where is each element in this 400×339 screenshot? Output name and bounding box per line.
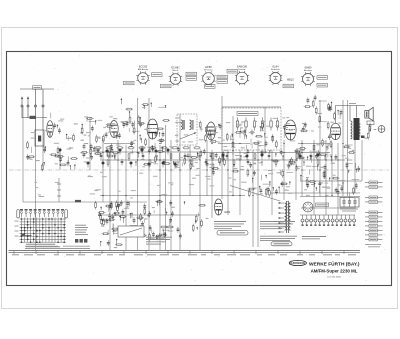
rectifier tube V8 [215,199,223,215]
svg-text:EL84: EL84 [272,64,279,68]
pilot lamp [378,126,385,133]
wire vertical 25 [264,107,266,150]
svg-text:Demod.: Demod. [238,69,246,71]
wire vertical 31 [319,100,321,196]
tube V4 pin label box upper-left [227,69,238,73]
wire vertical 10 [148,98,150,250]
wire vertical 38 [361,140,363,181]
tube V3 pin label box right upper [217,75,228,79]
rail caption left 3 [25,248,90,250]
wire vertical 33 [331,143,333,196]
wire AF coupling [298,143,330,145]
svg-text:EABC80: EABC80 [237,64,248,68]
voltage table text block [75,225,88,234]
wire vertical 16 [199,152,201,250]
transformer primary taps [278,202,284,204]
wire vertical 7 [117,140,119,202]
notes paragraph 1 [214,222,246,229]
wire vertical 35 [342,100,344,196]
heater voltage label [349,103,356,105]
svg-text:ECC85: ECC85 [139,64,148,68]
wire HT rail [270,192,360,194]
service note box 1 [217,231,248,235]
wire vertical 14 [179,114,181,250]
rail caption left 1 [25,245,58,247]
oscillator box top rail [222,106,281,108]
wire IF bus [95,151,200,153]
terminal label box right 1 [369,181,378,184]
output transformer T2 core [354,118,360,140]
wire vertical 24 [257,140,259,247]
wave symbol [21,234,32,236]
mixer tube V2a [110,121,118,138]
tube V6 pin label box right lower [317,83,328,87]
filter capacitor block C50 [340,198,359,208]
wire rectifier to transformer [230,186,280,202]
wire vertical 5 [102,138,104,202]
IF amp tube V4a [207,122,216,140]
contact row along band [100,153,326,167]
loudspeaker LS [365,111,369,119]
antenna coil L1 [30,116,37,119]
connector terminal strip [301,215,356,226]
terminal label box right 8 [369,225,378,228]
tube V4 socket pinout [235,71,249,85]
wire connector rail [300,214,355,216]
IF coupling components [177,146,198,170]
antenna terminal node 1 [21,105,23,107]
wire junction dots [102,143,348,196]
antenna coupling wire [22,117,47,119]
tube V2 pin label box below [161,84,172,88]
wire vertical 6 [109,145,111,250]
wire vertical 15 [189,145,191,196]
wire mid rail 3 [302,159,345,161]
svg-text:6BQ5: 6BQ5 [287,78,294,82]
IF transformer T1 primary coil [181,120,183,130]
wire vertical 23 [252,150,254,247]
power transformer T3 secondary [289,203,291,230]
mains section components [306,177,345,195]
wire AF bus [200,152,330,154]
wire vertical 4 [89,117,91,170]
demodulator tube V5a [285,120,296,140]
FM tuner components [26,141,102,172]
wire vertical 19 [221,96,223,199]
antenna terminal node 4 [42,105,44,107]
wire vertical 21 [232,116,234,196]
RF coupling components [57,120,114,143]
cable harness lower line [9,252,361,254]
wire vertical 9 [137,98,139,250]
resistor R12 [253,121,255,127]
wire vertical 17 [206,140,208,196]
band switch caption line 2 [26,246,60,248]
component value labels scattered [30,117,359,198]
tube V3 pin label box right lower [217,80,228,84]
wire HT rail 2 [300,196,360,198]
tube V5 pin label box below [283,84,294,88]
service note box 2 [271,242,292,246]
voltage table values [75,239,78,243]
note text right [302,236,326,238]
svg-text:(c) 1954 (963): (c) 1954 (963) [327,277,341,279]
antenna input wire [20,88,54,90]
wire grid lead [104,143,135,145]
cable harness upper line [9,250,361,252]
svg-text:ECH81: ECH81 [171,65,180,69]
AF stage components [335,145,361,197]
power supply components [248,178,291,198]
coil bank left column [95,201,123,248]
wire vertical 8 [125,145,127,250]
wire vertical 2 [42,130,44,170]
svg-text:GRUNDIG: GRUNDIG [290,261,306,265]
enclosure bottom label [75,200,81,202]
tube V3 socket pinout [201,71,215,85]
wire vertical 20 [227,150,229,215]
tube V6 socket pinout [301,72,315,86]
oscillator section shield box [222,108,281,150]
terminal label box right 4 [369,201,378,204]
wire vertical 11 [159,145,161,250]
wire vertical 28 [295,152,297,200]
tone capacitor dark [361,136,365,139]
svg-text:AM/FM-Super 2230 ML: AM/FM-Super 2230 ML [311,269,358,274]
tube V3 pin label box below [205,85,216,89]
band switch contact row [20,209,64,217]
tube V5 socket pinout [269,71,283,85]
tube V1 socket pinout [136,71,149,84]
band switch contact dots [21,218,65,243]
osc tube side components [157,119,183,143]
notes text block middle [146,237,172,244]
wire vertical 13 [170,140,172,250]
demodulator output components [287,148,306,173]
speaker matching box [367,121,374,125]
IF stage components [199,121,285,149]
resistor R14 [270,121,272,127]
terminal label box right 11 [369,238,378,241]
resistor R10 [236,121,238,127]
IF transformer T1 secondary coil [190,120,192,130]
wire mid rail [100,159,198,161]
wire anode to transformer [336,105,366,107]
terminal label box right 6 [369,216,378,219]
svg-text:Anzeige: Anzeige [304,69,313,72]
antenna label box [33,86,42,89]
RF tube V1a [47,121,53,138]
speaker area components [364,123,376,140]
wire output rail [300,180,362,182]
wire heater rail [100,195,245,197]
wire switch rail [100,214,200,216]
output transformer T2 secondary winding [359,124,361,136]
mixer stage components [105,115,178,168]
wire vertical 32 [325,140,327,215]
resistor R15 [276,121,278,127]
tube V1 pin label box right [152,73,163,77]
output transformer T2 primary winding [351,121,353,139]
wire vertical 12 [165,125,167,250]
mixer grid components [121,116,142,147]
svg-text:EM80: EM80 [305,65,312,69]
antenna down-lead 3 [35,89,37,146]
svg-text:WERKE FÜRTH (BAY.): WERKE FÜRTH (BAY.) [309,260,360,267]
power transformer T3 primary [285,203,287,230]
component row mid band [94,147,200,149]
tube V2 pin label box right lower [186,77,197,81]
svg-text:Endstufe: Endstufe [271,68,280,71]
antenna lead-in 2 [27,97,29,118]
matrix left pin labels [15,221,19,236]
oscillator coil bank [98,200,164,241]
terminal label box right 10 [369,234,378,237]
detector stage components [200,149,332,181]
oscillator section label box [237,112,258,116]
IF transformer T1 shield box [177,114,197,145]
cable harness wire labels [12,254,356,256]
terminal label box right 9 [369,229,378,232]
terminal label box right 5 [369,211,378,214]
antenna terminal node 3 [34,105,36,107]
band switch left bracket [17,210,20,219]
terminal label box right 7 [369,220,378,223]
band switch caption line 1 [26,243,55,245]
IF T1 trimmer arrow [180,133,195,139]
oscillator coil box L2 [35,130,44,146]
svg-text:EZ80: EZ80 [225,211,231,214]
wire vertical 34 [337,143,339,215]
output stage top components [328,102,343,120]
oscillator box inner components [230,129,273,150]
chassis ground line [9,169,389,171]
resistor R13 [261,121,263,127]
schematic border frame [7,52,392,286]
oscillator coil core [38,136,41,142]
wire vertical 1 [35,146,37,250]
antenna terminal node 2 [27,105,29,107]
tube V6 pin label box right upper [317,76,328,80]
svg-text:ZF-Verst.: ZF-Verst. [204,69,213,72]
connector strip rail [301,207,356,209]
wire vertical 22 [239,150,241,215]
tube V2 socket pinout [169,72,182,85]
rail caption left 2 [63,245,90,247]
svg-text:EF89: EF89 [205,65,212,69]
wire vertical 18 [211,150,213,218]
voltage selector switch [303,202,313,212]
terminal label box right 2 [369,186,378,189]
RF front components [51,113,97,142]
band switch right bracket [65,210,68,219]
dial assembly box [118,226,144,237]
wire vertical 3 [59,153,61,170]
wire vertical 26 [271,150,273,215]
wire vertical 29 [301,140,303,196]
output tube V7 [330,123,340,139]
antenna lead-in 1 [21,97,23,118]
tube V1 pin label box left [124,81,135,85]
antenna down-lead 4 [42,89,44,130]
svg-text:AM-Anode: AM-Anode [138,68,149,71]
filter cap labels [340,208,358,210]
wire vertical 36 [347,100,349,196]
tube V2 pin label box right upper [186,72,197,76]
potentiometer dark blobs [59,149,320,169]
power transformer T3 core [286,201,288,233]
wire branch with ticks [58,178,60,202]
terminal label box right 3 [369,196,378,199]
transformer core hatch [287,201,289,202]
output stage components [299,95,335,178]
grid capacitors above tubes [121,99,167,117]
wire mid rail 2 [205,159,298,161]
wire vertical 30 [313,140,315,215]
notes paragraph 2 [260,222,295,229]
cable harness ticks [14,251,344,255]
wire vertical 27 [283,140,285,200]
GRUNDIG logo oval [289,260,306,265]
switch section components [160,200,209,239]
wire detector lead [218,143,250,145]
band switch wiring grid [20,218,67,243]
resistor R11 [245,121,247,127]
notes paragraph 3 [260,236,297,240]
tuner enclosure bottom wall [23,201,147,203]
svg-text:Misch.: Misch. [172,70,179,72]
voltage selector label box [316,203,329,207]
measurement note right [365,244,381,246]
FM tuner enclosure left wall [22,106,24,202]
wire vertical 37 [354,140,356,193]
oscillator tube V3a [147,119,158,139]
